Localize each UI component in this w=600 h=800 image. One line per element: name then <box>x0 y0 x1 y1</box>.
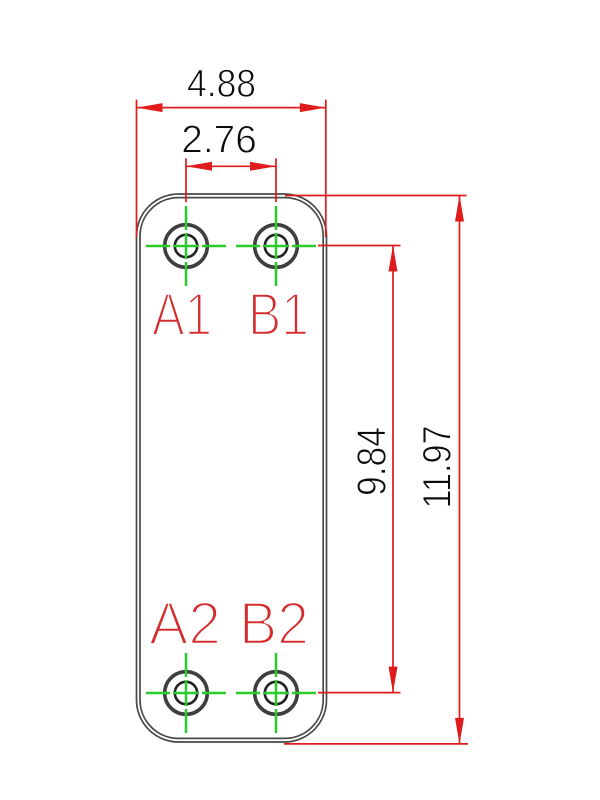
port B1 bore <box>265 235 287 257</box>
svg-text:A1: A1 <box>152 281 212 348</box>
plate inner outline <box>140 198 323 739</box>
dimension 9.84 arrow top <box>389 246 398 272</box>
svg-text:2.76: 2.76 <box>181 118 256 161</box>
svg-text:B1: B1 <box>248 281 309 348</box>
dimension 4.88 arrow left <box>137 103 163 112</box>
svg-text:9.84: 9.84 <box>349 427 395 496</box>
dimension 11.97 extension line bottom <box>284 743 468 745</box>
dimension 4.88 extension line left <box>136 100 138 237</box>
svg-text:A2: A2 <box>149 590 221 657</box>
dimension 9.84 extension line bottom <box>318 692 401 694</box>
dimension 11.97 arrow bottom <box>455 718 464 744</box>
port B2 bore <box>265 682 287 704</box>
dimension 11.97 extension line top <box>285 195 467 197</box>
dimension 9.84 extension line top <box>318 245 401 247</box>
dimension 11.97 arrow top <box>455 196 464 222</box>
dimension 4.88 extension line right <box>325 100 327 237</box>
dimension 2.76 arrow left <box>186 162 212 171</box>
port A1 outer ring <box>165 225 208 268</box>
dimension 2.76 line <box>186 165 276 167</box>
dimension 2.76 extension line right <box>275 158 277 202</box>
port A2 outer ring <box>165 672 208 715</box>
svg-text:11.97: 11.97 <box>416 426 460 509</box>
dimension 4.88 arrow right <box>300 103 326 112</box>
port A1 bore <box>175 235 197 257</box>
port A2 bore <box>175 682 197 704</box>
port B1 center mark <box>236 206 316 286</box>
port B2 center mark <box>236 653 316 733</box>
svg-text:4.88: 4.88 <box>187 63 256 106</box>
dimension 9.84 arrow bottom <box>389 667 398 693</box>
port B1 outer ring <box>255 225 298 268</box>
port A1 center mark <box>146 206 226 286</box>
dimension 2.76 extension line left <box>185 158 187 202</box>
plate outer outline <box>137 194 327 742</box>
port B2 outer ring <box>255 672 298 715</box>
dimension 9.84 line <box>392 246 394 693</box>
dimension 11.97 line <box>459 196 461 744</box>
svg-text:B2: B2 <box>239 590 309 657</box>
port A2 center mark <box>146 653 226 733</box>
dimension 2.76 arrow right <box>250 162 276 171</box>
dimension 4.88 line <box>137 107 326 109</box>
